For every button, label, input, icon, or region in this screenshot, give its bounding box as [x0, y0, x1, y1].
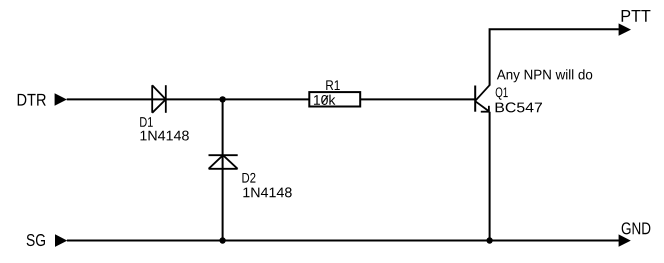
label 1N4148 (D1): [140, 131, 188, 141]
wire: [67, 98, 475, 100]
wire: [490, 29, 619, 85]
node A junction: [219, 96, 225, 102]
label BC547: [496, 102, 542, 112]
node GND output arrow: [619, 234, 631, 246]
label D1: [140, 117, 153, 127]
node DTR input arrow: [55, 93, 67, 105]
node PTT output arrow: [619, 23, 631, 35]
label D2: [242, 173, 255, 183]
diode D2: [209, 155, 238, 169]
node SG junction (Q1 emitter): [486, 237, 492, 243]
label DTR: [18, 94, 46, 106]
label R1: [326, 80, 339, 90]
wire: [222, 99, 224, 240]
transistor Q1: [475, 85, 490, 112]
resistor R1: [309, 92, 360, 106]
label 10k: [314, 95, 335, 105]
label 1N4148 (D2): [243, 187, 291, 197]
node SG junction (D2): [219, 237, 225, 243]
label PTT: [622, 10, 651, 22]
diode D1: [152, 85, 166, 113]
label GND: [622, 222, 651, 234]
wire: [67, 240, 619, 242]
label SG: [27, 234, 45, 246]
wire: [489, 112, 491, 241]
label Q1 annotation: [497, 69, 592, 82]
node SG input arrow: [55, 234, 67, 247]
slashed zero in 10k: [322, 96, 328, 104]
label Q1: [496, 87, 508, 99]
